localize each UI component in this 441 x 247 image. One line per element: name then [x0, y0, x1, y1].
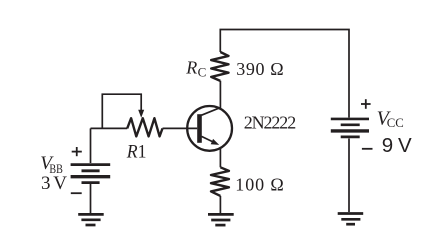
svg-text:2N2222: 2N2222 [244, 113, 297, 133]
svg-text:C: C [198, 65, 207, 80]
svg-text:390 Ω: 390 Ω [236, 59, 284, 79]
svg-text:R: R [185, 57, 197, 77]
svg-text:R1: R1 [126, 142, 147, 163]
svg-text:9V: 9V [382, 134, 412, 157]
svg-text:100 Ω: 100 Ω [235, 175, 283, 195]
svg-text:CC: CC [387, 115, 404, 130]
svg-text:3V: 3V [41, 173, 67, 194]
